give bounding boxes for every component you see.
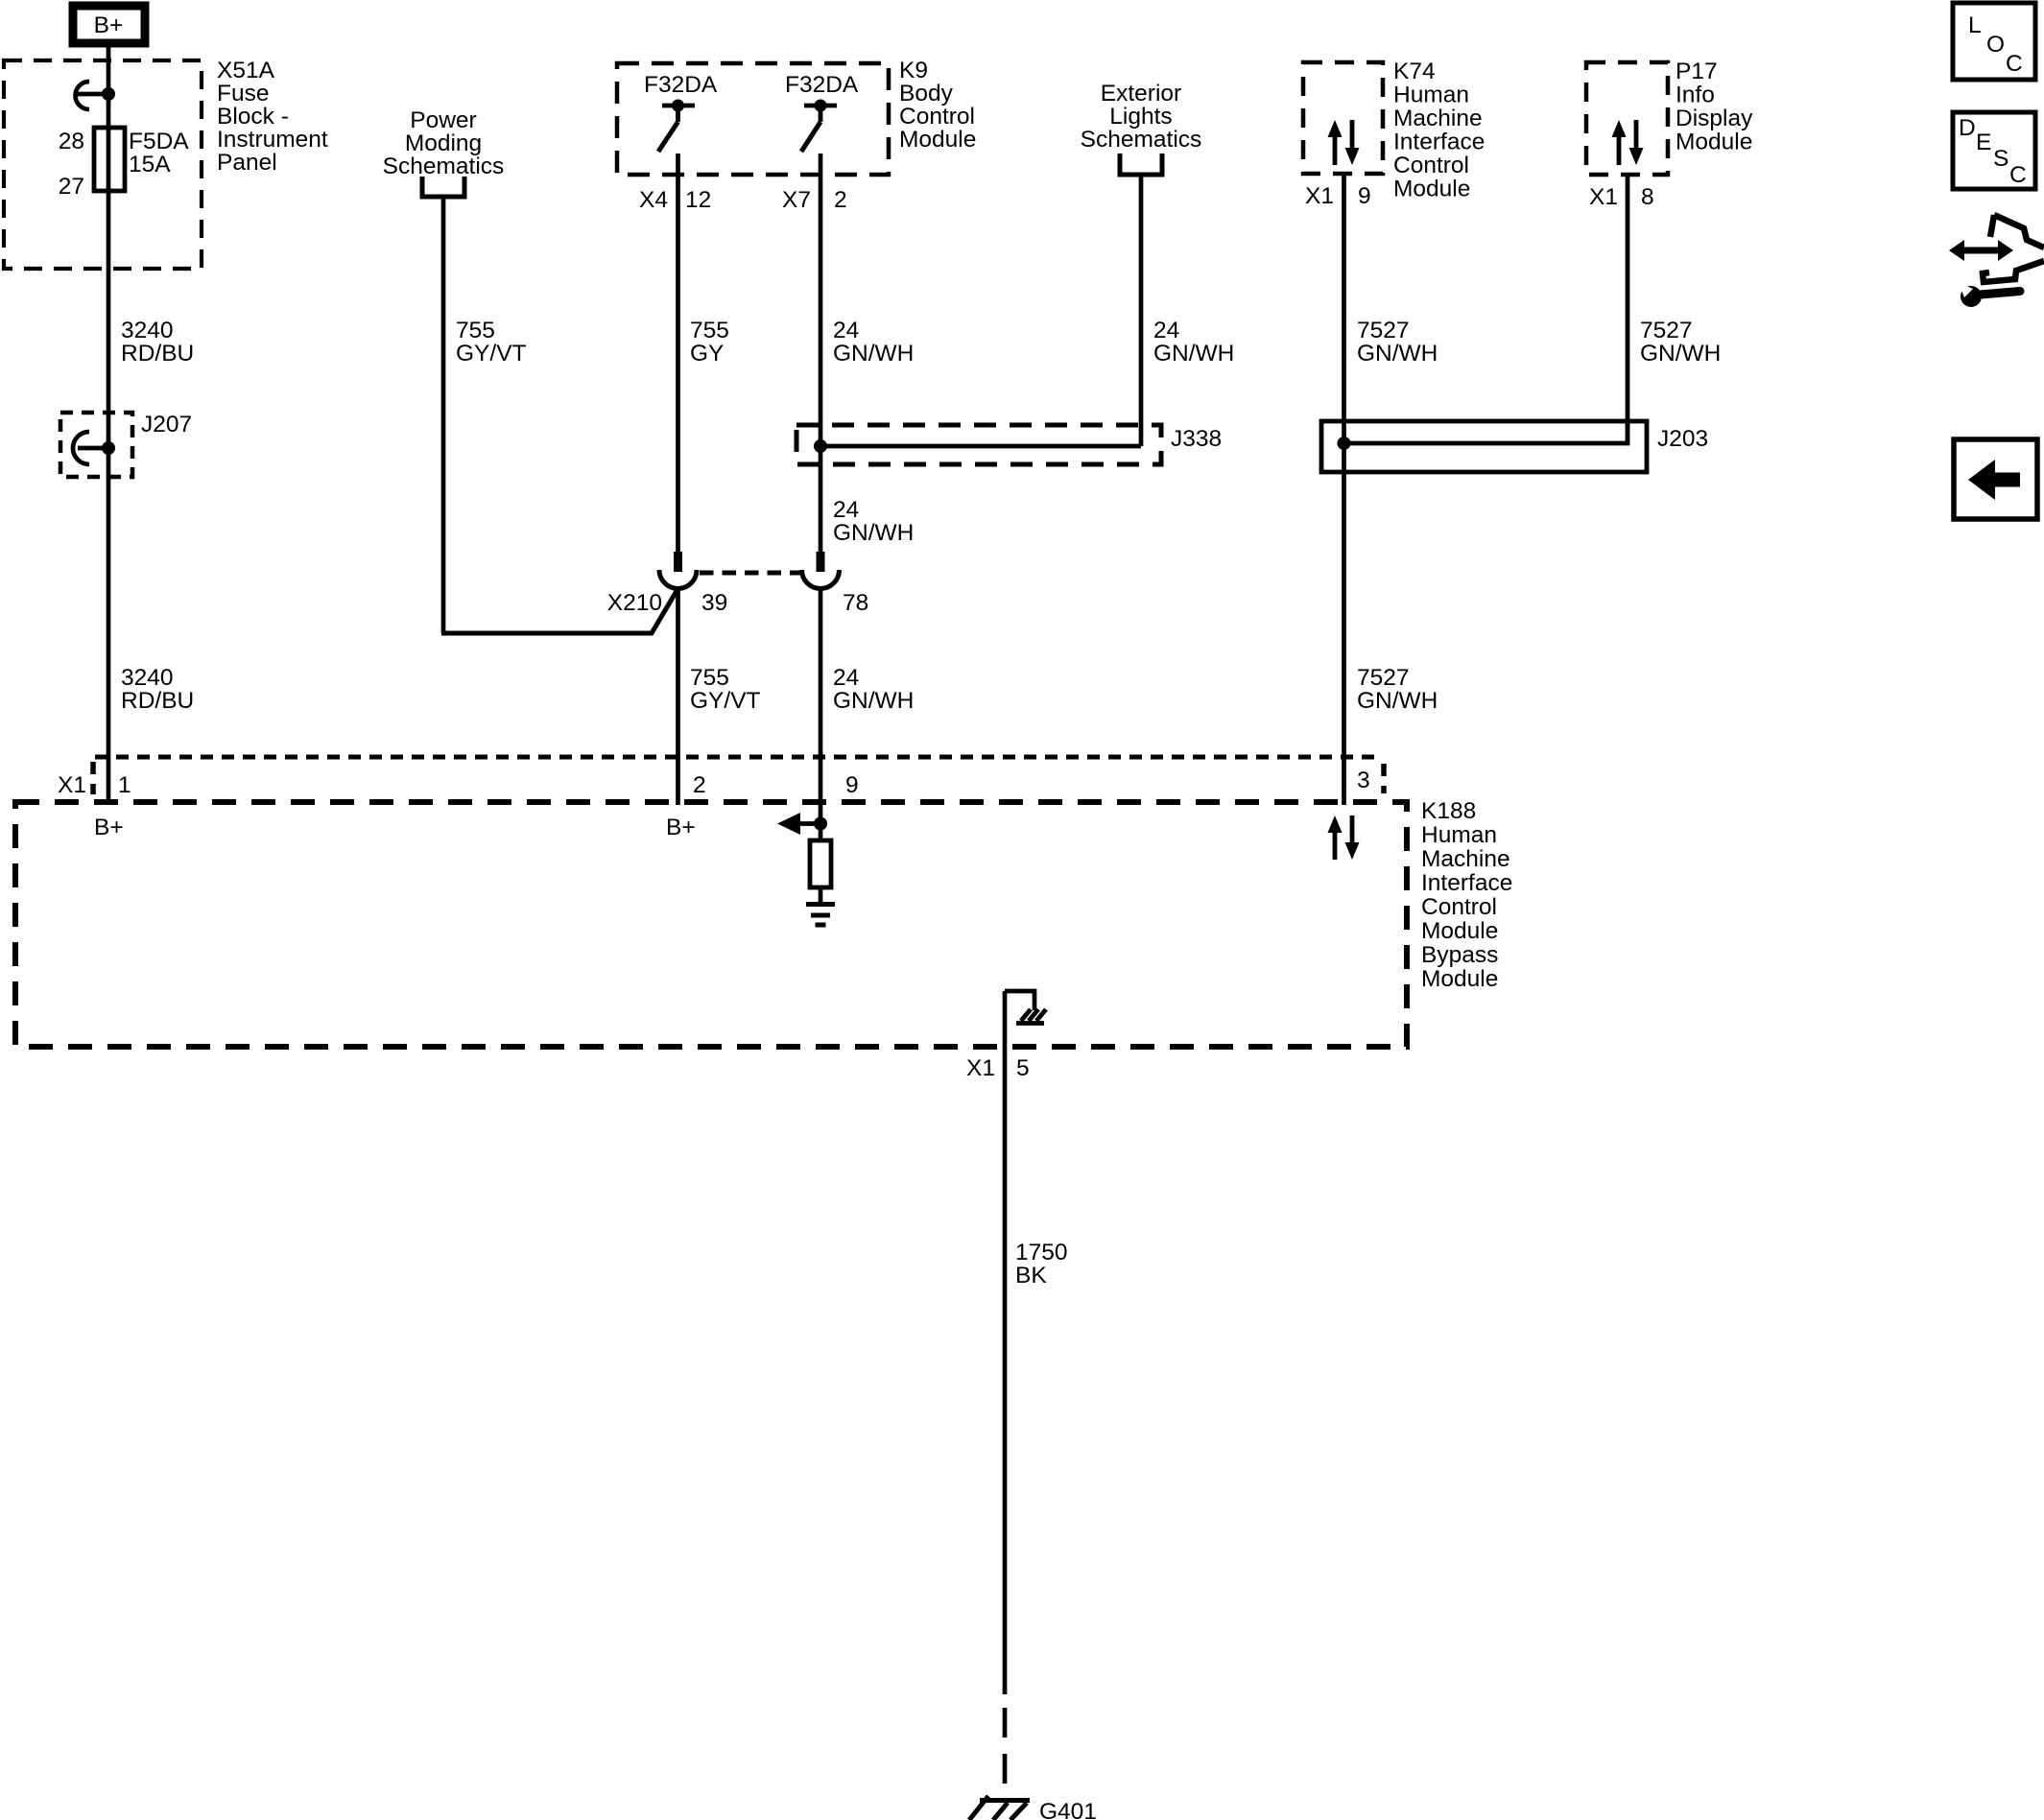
svg-text:Interface: Interface [1421,870,1512,896]
wire label 1750 BK [1015,1240,1068,1288]
svg-text:B+: B+ [94,12,124,38]
K188 Human Machine Interface Control Module Bypass Module label [1421,798,1512,992]
Power Moding Schematics off-page reference [383,107,505,179]
svg-text:Bypass: Bypass [1421,942,1498,968]
wire from dot to resistor [819,824,823,841]
ground G401 symbol [969,1796,1030,1820]
K188 pin label X1 5 [966,1055,1030,1081]
wire 7527 GN/WH from P17 to J203 [1626,175,1630,443]
junction dot J338 [814,439,827,453]
svg-text:F32DA: F32DA [785,72,859,98]
junction dot at pin 9 [814,817,827,831]
svg-text:Human: Human [1393,83,1469,108]
svg-text:Fuse: Fuse [217,81,269,106]
serial data arrows in P17 [1612,120,1644,165]
off-page bracket Power Moding [422,177,464,197]
wire label 24 GN/WH below J338 [833,497,914,546]
svg-text:GN/WH: GN/WH [833,688,914,714]
svg-text:X1: X1 [58,772,86,798]
svg-text:Schematics: Schematics [1081,127,1202,153]
wire from resistor to ground [819,887,823,902]
splice J207 dashed outline [60,413,132,477]
svg-text:RD/BU: RD/BU [121,341,194,366]
svg-text:Human: Human [1421,822,1497,848]
output arrow at pin 9 [777,813,820,835]
wire label 24 GN/WH [833,318,914,366]
svg-text:X7: X7 [782,187,811,213]
svg-text:D: D [1959,115,1976,141]
svg-text:Module: Module [1421,918,1498,944]
connector X1 dotted header line [95,755,1381,760]
svg-text:P17: P17 [1676,59,1718,84]
svg-text:Control: Control [1393,153,1469,178]
resistor in K188 [810,840,831,887]
svg-text:5: 5 [1016,1055,1030,1081]
svg-text:Lights: Lights [1109,104,1172,130]
svg-text:78: 78 [843,590,868,616]
svg-text:GN/WH: GN/WH [1357,341,1438,366]
serial data arrows at K188 pin 3 [1328,815,1360,860]
svg-text:24: 24 [833,497,859,523]
svg-text:Power: Power [410,107,476,133]
info display module P17 dashed outline [1586,62,1668,175]
svg-text:9: 9 [845,772,859,798]
svg-text:K188: K188 [1421,798,1476,824]
off-page bracket Exterior Lights [1120,154,1162,175]
body control module K9 dashed outline [617,63,889,175]
svg-text:X4: X4 [639,187,668,213]
svg-text:GN/WH: GN/WH [1640,341,1721,366]
wire 7527 GN/WH from K74 to J203 [1342,174,1346,443]
svg-text:K74: K74 [1393,59,1436,84]
svg-text:GN/WH: GN/WH [833,341,914,366]
svg-text:3: 3 [1357,768,1370,793]
svg-text:Exterior: Exterior [1101,81,1181,106]
svg-text:C: C [2009,162,2027,188]
wire from B+ to fuse block X51A [107,43,111,94]
svg-text:12: 12 [685,187,711,213]
svg-text:B+: B+ [666,815,696,840]
svg-text:Machine: Machine [1421,846,1510,872]
connector X1 left stub [90,762,96,794]
wire label 755 GY/VT [456,318,527,366]
svg-text:GY/VT: GY/VT [690,688,761,714]
svg-text:Schematics: Schematics [383,154,505,179]
svg-text:BK: BK [1015,1263,1047,1288]
junction dot in X51A [102,87,115,101]
wire 755 GY/VT from X210 to K188 pin 2 [676,589,680,805]
wire from junction to fuse F5DA [107,94,111,128]
svg-text:9: 9 [1358,183,1371,209]
wire inside J203 [1344,421,1628,443]
svg-text:J203: J203 [1657,426,1708,452]
svg-text:X210: X210 [607,590,662,616]
svg-text:15A: 15A [129,152,171,177]
LOC reference box [1953,3,2035,80]
svg-text:Panel: Panel [217,150,277,176]
svg-text:2: 2 [693,772,706,798]
svg-text:K9: K9 [899,58,928,83]
svg-text:Body: Body [899,81,954,106]
wire horizontal run to X210 [441,591,677,633]
wire label 755 GY [690,318,729,366]
wire label 755 GY/VT lower [690,665,761,714]
svg-text:GN/WH: GN/WH [1357,688,1438,714]
svg-text:Info: Info [1676,83,1715,108]
wire 24 GN/WH from K9 X7-2 to J338 [819,154,823,553]
X51A Fuse Block label [217,58,328,176]
svg-text:8: 8 [1641,184,1654,210]
DESC reference box [1953,112,2035,189]
svg-text:C: C [2006,51,2023,77]
svg-text:Module: Module [1676,130,1752,155]
svg-text:28: 28 [59,129,84,154]
svg-text:E: E [1976,130,1991,155]
splice pack J203 outline [1321,421,1647,472]
K74 Human Machine Interface Control Module label [1393,59,1485,202]
svg-text:Control: Control [899,104,975,130]
P17 pin label X1 8 [1589,184,1654,210]
fuse wire through body [107,128,111,191]
X210 connector tie dashed line [700,571,802,576]
B+ power feed box [73,6,145,43]
wire 3240 RD/BU from fuse to J207 [107,191,111,448]
svg-text:Display: Display [1676,106,1753,131]
svg-text:755: 755 [456,318,495,343]
svg-text:B+: B+ [94,815,124,840]
P17 Info Display Module label [1676,59,1753,155]
back arrow box [1954,439,2037,519]
wire label 24 GN/WH exterior [1153,318,1234,366]
HMI control module K74 dashed outline [1303,62,1383,174]
wire label 7527 GN/WH left [1357,318,1438,366]
svg-text:7527: 7527 [1357,665,1410,691]
wire 7527 GN/WH from J203 to K188 pin 3 [1342,443,1346,805]
svg-text:X1: X1 [966,1055,995,1081]
wire 755 GY from K9 X4-12 to X210 [676,154,680,553]
svg-text:G401: G401 [1039,1799,1097,1820]
K9 pin label X7 2 [782,187,847,213]
junction dot J203 [1338,437,1351,450]
wire 3240 RD/BU from J207 to K188 pin 1 [107,448,111,805]
wire label 7527 GN/WH right [1640,318,1721,366]
svg-text:X1: X1 [1305,183,1334,209]
HMI bypass module K188 dashed outline [15,802,1407,1047]
wire 24 GN/WH from X210 to K188 pin 9 [819,589,823,823]
wire 755 GY/VT from Power Moding [441,197,446,633]
svg-text:Module: Module [1421,966,1498,992]
svg-text:27: 27 [59,174,84,200]
K74 pin label X1 9 [1305,183,1371,209]
svg-text:755: 755 [690,665,729,691]
svg-text:Machine: Machine [1393,106,1483,131]
svg-text:L: L [1968,12,1982,38]
svg-text:2: 2 [834,187,847,213]
fuse F5DA 15A [94,128,125,191]
svg-text:RD/BU: RD/BU [121,688,194,714]
svg-text:GN/WH: GN/WH [833,520,914,546]
serial data arrows in K74 [1328,120,1360,165]
terminal symbol in J207 [73,432,108,464]
switch F32DA right [801,100,837,153]
svg-text:39: 39 [701,590,727,616]
svg-text:Block -: Block - [217,104,289,130]
connector X1 right stub [1381,764,1387,793]
svg-text:GY/VT: GY/VT [456,341,527,366]
svg-text:1750: 1750 [1015,1240,1068,1265]
chassis ground tab in K188 [1005,991,1046,1024]
svg-text:Moding: Moding [405,130,482,156]
svg-text:J338: J338 [1171,426,1222,452]
wire dashed continuation to G401 [1003,1708,1008,1798]
svg-text:F32DA: F32DA [644,72,718,98]
Exterior Lights Schematics off-page reference [1081,81,1202,153]
in-line connector X210 pin 39 [659,552,697,589]
svg-text:7527: 7527 [1357,318,1410,343]
K9 Body Control Module label [899,58,976,153]
svg-text:3240: 3240 [121,665,174,691]
svg-text:Instrument: Instrument [217,127,328,153]
svg-text:GY: GY [690,341,724,366]
wire 1750 BK ground wire [1003,991,1008,1694]
svg-text:3240: 3240 [121,318,174,343]
svg-text:GN/WH: GN/WH [1153,341,1234,366]
switch F32DA left [658,100,695,153]
svg-text:24: 24 [833,318,859,343]
K9 pin label X4 12 [639,187,711,213]
in-line connector X210 pin 78 [802,552,840,589]
wire label 24 GN/WH lower [833,665,914,714]
wire label 3240 RD/BU lower [121,665,194,714]
svg-text:24: 24 [1153,318,1179,343]
svg-text:O: O [1986,32,2005,58]
svg-text:F5DA: F5DA [129,129,189,154]
wire inside J338 [820,444,1141,449]
svg-text:J207: J207 [141,412,192,437]
svg-text:1: 1 [118,772,131,798]
svg-text:S: S [1993,146,2008,172]
svg-text:Control: Control [1421,894,1497,920]
repair instructions icon (arrow with wrench) [1949,215,2044,307]
svg-text:X1: X1 [1589,184,1618,210]
svg-text:X51A: X51A [217,58,275,83]
terminal symbol in X51A [76,82,109,109]
ground symbol in K188 [806,905,835,926]
wire 24 GN/WH from Exterior Lights [1139,175,1144,446]
fuse block X51A dashed outline [4,60,202,269]
junction dot J207 [102,441,115,455]
svg-text:24: 24 [833,665,859,691]
svg-text:Module: Module [1393,177,1470,202]
wire label 3240 RD/BU [121,318,194,366]
wire label 7527 GN/WH lower [1357,665,1438,714]
svg-text:Module: Module [899,127,976,153]
svg-text:7527: 7527 [1640,318,1693,343]
svg-text:755: 755 [690,318,729,343]
splice J338 dashed outline [796,425,1161,464]
svg-text:Interface: Interface [1393,130,1485,155]
